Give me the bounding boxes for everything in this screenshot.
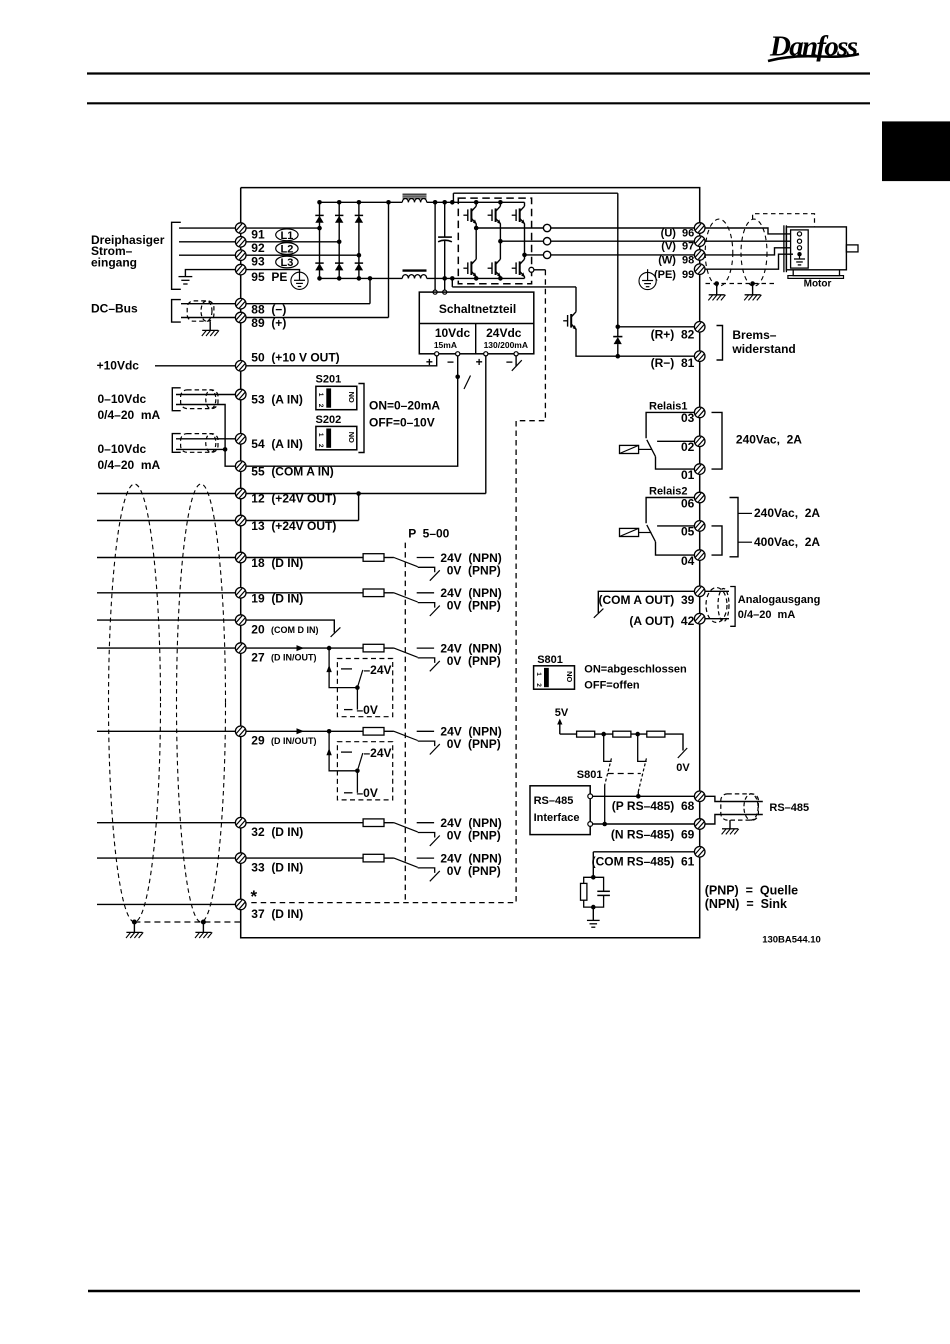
- wire DC minus to SMPS: [444, 278, 446, 290]
- junction 88 minus rail: [368, 276, 373, 281]
- terminal 32: [235, 817, 246, 828]
- svg-text:01: 01: [681, 468, 695, 482]
- option blade 27: [357, 670, 362, 688]
- wire 18: [97, 557, 363, 559]
- wire 89: [181, 317, 389, 319]
- IGBT Q3 upper: [512, 202, 525, 255]
- svg-text:50 (+10 V OUT): 50 (+10 V OUT): [251, 351, 339, 365]
- junction shield 2: [201, 920, 206, 925]
- svg-text:93: 93: [251, 255, 265, 269]
- svg-text:06: 06: [681, 496, 695, 510]
- terminal 99: [694, 264, 705, 275]
- option stub -24V 27: [341, 668, 352, 670]
- junction switch2 68: [636, 794, 641, 799]
- motor body: [786, 227, 846, 270]
- junction shield drains: [223, 447, 228, 452]
- phase U wire: [476, 227, 543, 229]
- svg-text:ON: ON: [565, 671, 574, 682]
- RC resistor branch 2: [584, 900, 594, 907]
- svg-text:27: 27: [251, 650, 265, 664]
- stub 24V 19: [417, 592, 434, 594]
- junction top bus Q2: [498, 200, 503, 205]
- switch blade 29: [394, 731, 418, 740]
- junction bottom bus Q5: [498, 276, 503, 281]
- junction 12-13: [356, 491, 361, 496]
- bracket S20x: [358, 384, 364, 453]
- junction 29 option: [327, 729, 332, 734]
- DIP switch S202: [316, 414, 357, 450]
- brake control tap circle: [529, 267, 534, 272]
- wire 32: [97, 822, 363, 824]
- terminal 93: [235, 250, 246, 261]
- slash 20 common: [331, 627, 341, 637]
- stub 0V 29: [418, 741, 435, 746]
- capacitor C61: [597, 891, 610, 895]
- svg-text:(W) 98: (W) 98: [658, 254, 694, 266]
- inverter module dashed box: [458, 198, 531, 284]
- motor terminal PE dot: [797, 252, 801, 256]
- svg-text:L3: L3: [280, 257, 293, 269]
- option dashed box 29: [337, 742, 392, 800]
- terminal 81: [694, 351, 705, 362]
- stub 24V 32: [417, 822, 434, 824]
- DIP switch S201: [316, 373, 357, 409]
- phase W wire: [525, 254, 544, 256]
- svg-text:(D IN/OUT): (D IN/OUT): [271, 653, 317, 663]
- SMPS input circle plus: [433, 290, 437, 294]
- stub motor ground 2: [752, 284, 754, 295]
- terminal 33: [235, 853, 246, 864]
- motor earth ground: [794, 259, 805, 265]
- wire 33: [97, 857, 363, 859]
- DC plus wrap wire: [453, 192, 617, 194]
- label 27: [251, 650, 316, 664]
- SMPS out 10V+ circle: [435, 352, 439, 356]
- 5V arrow: [557, 719, 562, 735]
- terminal 91: [235, 223, 246, 234]
- option down wire 27: [356, 688, 358, 710]
- slash 39 com: [594, 609, 604, 618]
- motor terminal W: [797, 246, 801, 250]
- svg-text:130/200mA: 130/200mA: [484, 340, 528, 350]
- S801 linkage dashed: [608, 773, 641, 775]
- junction plus jog: [450, 200, 455, 205]
- terminal 20: [235, 615, 246, 626]
- junction option common 29: [355, 769, 360, 774]
- terminal 97: [694, 236, 705, 247]
- resistor R32: [363, 819, 384, 827]
- svg-text:–24V: –24V: [364, 746, 392, 760]
- svg-text:−: −: [506, 355, 513, 369]
- brake IGBT Q7: [563, 287, 576, 330]
- terminal 50: [235, 361, 246, 372]
- svg-text:53 (A IN): 53 (A IN): [251, 393, 303, 407]
- phase V wire: [500, 240, 543, 242]
- ellipse L1: [276, 229, 298, 242]
- tick 400Vac: [738, 541, 752, 543]
- svg-text:S801: S801: [537, 654, 563, 666]
- brake diode D7: [613, 337, 622, 357]
- tick 240Vac: [738, 512, 752, 514]
- diode D2 upper: [335, 215, 343, 222]
- terminal 01: [694, 464, 705, 475]
- svg-text:0/4–20 mA: 0/4–20 mA: [738, 609, 796, 621]
- diode D5 lower: [335, 263, 343, 270]
- option stub -0V 29: [344, 792, 353, 794]
- stub 24V 18: [417, 557, 434, 559]
- svg-text:S201: S201: [316, 373, 342, 385]
- footer rule: [88, 1290, 860, 1293]
- junction RC bottom: [591, 905, 596, 910]
- junction switch1 69: [602, 822, 607, 827]
- svg-text:0V (PNP): 0V (PNP): [447, 563, 501, 577]
- motor flange: [784, 225, 787, 272]
- svg-text:0V (PNP): 0V (PNP): [447, 829, 501, 843]
- svg-text:0/4–20 mA: 0/4–20 mA: [98, 408, 161, 422]
- phase W wire to 98: [551, 254, 695, 256]
- shield drain dashed wire: [134, 921, 240, 923]
- option down wire 29: [356, 771, 358, 793]
- ellipse L2: [276, 243, 298, 256]
- svg-text:12 (+24V OUT): 12 (+24V OUT): [251, 492, 336, 506]
- stub 24V 27: [417, 647, 434, 649]
- junction motor shield 1: [714, 281, 719, 286]
- motor base: [788, 270, 844, 279]
- wire V to motor: [705, 240, 791, 242]
- analog out bracket: [730, 587, 735, 627]
- junction L3 phase: [357, 253, 362, 258]
- wire 29: [97, 730, 363, 732]
- junction R-: [616, 354, 621, 359]
- stub motor ground 1: [716, 284, 718, 295]
- svg-text:32 (D IN): 32 (D IN): [251, 825, 303, 839]
- wire 88: [181, 303, 370, 305]
- stub 0V 32: [418, 833, 435, 838]
- motor terminal U: [797, 232, 801, 236]
- RS-485 interface box: [530, 786, 590, 835]
- header rule 2: [87, 102, 870, 104]
- wire 12 to 13 link: [358, 494, 360, 521]
- wire 88 to minus rail: [369, 278, 371, 303]
- wire R+ from DC plus: [617, 193, 619, 336]
- junction shield 1: [132, 920, 137, 925]
- resistor R18: [363, 554, 384, 562]
- svg-text:03: 03: [681, 411, 695, 425]
- DC bus cable shield: [187, 301, 214, 321]
- wire 37: [97, 903, 241, 905]
- svg-text:ON=0–20mA: ON=0–20mA: [369, 399, 440, 413]
- junction bottom bus Q6: [0, 0, 1, 1]
- wire 10V- common: [241, 356, 458, 466]
- DC bus bracket: [172, 300, 181, 323]
- wire 20: [97, 620, 334, 632]
- svg-text:240Vac, 2A: 240Vac, 2A: [736, 432, 802, 446]
- wire 42 right: [705, 618, 729, 620]
- resistor R33: [363, 854, 384, 862]
- relay1 NC wire 02: [657, 440, 694, 442]
- svg-text:(R−) 81: (R−) 81: [651, 356, 695, 370]
- wire 69: [593, 823, 695, 825]
- slash 0V rail: [678, 748, 687, 758]
- terminal 06: [694, 492, 705, 503]
- relay1 bracket: [712, 412, 723, 469]
- slash 0V 18: [430, 570, 440, 580]
- arrow up option 27: [326, 665, 331, 672]
- slash 0V 29: [430, 744, 440, 754]
- svg-text:+10Vdc: +10Vdc: [97, 358, 140, 372]
- RS485 P circle: [588, 794, 593, 799]
- svg-text:33 (D IN): 33 (D IN): [251, 861, 303, 875]
- svg-text:(V) 97: (V) 97: [661, 241, 694, 253]
- relay1 coil: [620, 445, 652, 453]
- relay1 NO wire 03: [646, 412, 694, 438]
- ellipse L3: [276, 256, 298, 269]
- switch slash 24V-: [512, 360, 522, 371]
- phase V wire to 97: [551, 240, 695, 242]
- option stub -0V 27: [344, 709, 353, 711]
- rectifier leg L1: [319, 202, 321, 278]
- terminal 27: [235, 643, 246, 654]
- svg-text:(PNP) = Quelle: (PNP) = Quelle: [705, 883, 798, 897]
- DC bus shield drain: [209, 321, 211, 330]
- wire 69 right: [705, 815, 763, 825]
- svg-text:+: +: [476, 355, 483, 369]
- chassis ground RS485: [722, 829, 739, 835]
- RS485 cable shield: [721, 794, 759, 820]
- junction top leg L1: [317, 200, 322, 205]
- RC resistor branch: [584, 877, 594, 883]
- stub 24V-: [515, 356, 517, 366]
- svg-text:0V (PNP): 0V (PNP): [447, 864, 501, 878]
- wire L2 to 92: [179, 241, 339, 243]
- svg-text:(COM RS–485) 61: (COM RS–485) 61: [592, 855, 695, 869]
- junction 27 option: [327, 646, 332, 651]
- SMPS out 24V- circle: [514, 352, 518, 356]
- motor cable shield ellipse 1: [705, 219, 733, 286]
- resistor R61: [581, 883, 587, 900]
- svg-text:88 (−): 88 (−): [251, 302, 286, 316]
- svg-text:0V (PNP): 0V (PNP): [447, 599, 501, 613]
- option drop wire 27: [329, 648, 357, 688]
- svg-text:Schaltnetzteil: Schaltnetzteil: [439, 302, 516, 316]
- svg-text:37 (D IN): 37 (D IN): [251, 907, 303, 921]
- svg-text:(U) 96: (U) 96: [661, 227, 695, 239]
- label 29: [251, 734, 316, 748]
- svg-text:Brems–: Brems–: [732, 328, 776, 342]
- terminal 53: [235, 389, 246, 400]
- terminal 82: [694, 322, 705, 333]
- arrow out 27: [297, 645, 305, 651]
- 5V rail 2: [595, 733, 613, 735]
- junction bottom leg L1: [317, 276, 322, 281]
- diode D1 upper: [315, 215, 323, 222]
- junction R+: [616, 325, 621, 330]
- svg-text:400Vac, 2A: 400Vac, 2A: [754, 535, 820, 549]
- svg-text:–0V: –0V: [357, 786, 378, 800]
- S801 switch 2: [638, 734, 647, 796]
- terminal 39: [694, 586, 705, 597]
- svg-text:0/4–20 mA: 0/4–20 mA: [98, 458, 161, 472]
- svg-text:Interface: Interface: [534, 812, 580, 824]
- resistor R3 5V: [647, 731, 665, 737]
- terminal 02: [694, 436, 705, 447]
- RC cap branch: [593, 877, 603, 891]
- wire 18 after resistor: [384, 557, 394, 559]
- svg-text:2: 2: [317, 444, 324, 448]
- svg-text:−: −: [447, 355, 454, 369]
- terminal 12: [235, 488, 246, 499]
- svg-text:24Vdc: 24Vdc: [486, 326, 522, 340]
- svg-text:P 5–00: P 5–00: [408, 527, 449, 541]
- resistor R1 5V: [577, 731, 595, 737]
- wire 53 shield drain: [176, 405, 225, 450]
- rectifier minus bus: [320, 277, 403, 279]
- junction top leg L3: [357, 200, 362, 205]
- svg-text:(A OUT) 42: (A OUT) 42: [629, 614, 694, 628]
- svg-text:29: 29: [251, 734, 265, 748]
- svg-text:–0V: –0V: [357, 703, 378, 717]
- svg-text:0–10Vdc: 0–10Vdc: [98, 442, 147, 456]
- svg-text:L1: L1: [280, 230, 293, 242]
- Schaltnetzteil box: [419, 292, 534, 354]
- motor earth stub: [799, 254, 801, 258]
- resistor R29: [363, 728, 384, 736]
- wire 54 shield drain: [176, 448, 225, 450]
- option stub -24V 29: [341, 751, 352, 753]
- SMPS out 24V+ circle: [484, 352, 488, 356]
- terminal 61: [694, 847, 705, 858]
- svg-text:(NPN) = Sink: (NPN) = Sink: [705, 897, 787, 911]
- terminal 42: [694, 613, 705, 624]
- junction top bus Q1: [474, 200, 479, 205]
- wire 19: [97, 592, 363, 594]
- stub 24V 29: [417, 730, 434, 732]
- PE circle symbol at 99: [639, 269, 656, 289]
- svg-text:15mA: 15mA: [434, 340, 457, 350]
- svg-text:2: 2: [535, 683, 542, 687]
- stub 0V 18: [418, 567, 435, 572]
- 5V rail 3: [631, 733, 647, 735]
- wire 53: [176, 394, 241, 396]
- svg-text:20: 20: [251, 623, 265, 637]
- arrow up option 29: [326, 748, 331, 755]
- terminal 05: [694, 521, 705, 532]
- svg-text:+: +: [426, 355, 433, 369]
- svg-text:19 (D IN): 19 (D IN): [251, 591, 303, 605]
- svg-text:02: 02: [681, 440, 695, 454]
- wire 68 right: [705, 796, 763, 801]
- svg-text:ON: ON: [347, 392, 356, 403]
- IGBT Q6 lower: [512, 255, 525, 279]
- option blade 29: [357, 753, 362, 771]
- svg-text:OFF=offen: OFF=offen: [584, 679, 640, 691]
- terminal 04: [694, 550, 705, 561]
- control cable shield ellipse 1: [109, 484, 161, 922]
- Danfoss logo: [768, 31, 859, 63]
- control board dashed boundary: [251, 270, 545, 903]
- chapter tab: [882, 121, 950, 181]
- svg-text:0V: 0V: [676, 762, 690, 774]
- label Dreiphasiger Strom-eingang: [91, 233, 165, 270]
- relay2 NO wire 06: [646, 498, 694, 524]
- option dashed box 27: [337, 659, 392, 717]
- IGBT Q4 lower: [463, 228, 476, 278]
- wire W to motor: [705, 248, 791, 255]
- junction top leg L2: [337, 200, 342, 205]
- terminal 68: [694, 791, 705, 802]
- svg-text:92: 92: [251, 241, 265, 255]
- control cable shield ellipse 2: [177, 484, 226, 922]
- switch blade 27: [394, 648, 418, 657]
- switch blade 32: [394, 823, 418, 832]
- svg-text:130BA544.10: 130BA544.10: [762, 934, 821, 945]
- svg-text:OFF=0–10V: OFF=0–10V: [369, 416, 435, 430]
- stub ground 2: [202, 922, 204, 932]
- IGBT Q5 lower: [488, 241, 501, 278]
- motor cable shield ellipse 2: [741, 219, 767, 286]
- chassis ground DC bus shield: [202, 330, 219, 336]
- relay2 inner bracket: [712, 526, 723, 555]
- header rule 1: [87, 72, 870, 74]
- DC choke upper: [402, 194, 426, 202]
- wire 39 right: [705, 590, 729, 592]
- diode D3 upper: [355, 215, 363, 222]
- DC minus wrap wire: [452, 286, 576, 288]
- wire 61: [593, 851, 695, 853]
- option drop wire 29: [329, 731, 357, 771]
- svg-text:18 (D IN): 18 (D IN): [251, 556, 303, 570]
- diode D6 lower: [355, 263, 363, 270]
- wire 24V+ down: [485, 356, 487, 494]
- junction L1 phase: [317, 226, 322, 231]
- bracket 54: [172, 434, 180, 453]
- terminal 92: [235, 237, 246, 248]
- 5V rail 4: [665, 734, 683, 750]
- svg-text:RS–485: RS–485: [769, 802, 809, 814]
- RC cap branch 2: [593, 895, 603, 907]
- terminal 55: [235, 461, 246, 472]
- drive enclosure box: [241, 188, 700, 938]
- svg-text:0V (PNP): 0V (PNP): [447, 654, 501, 668]
- junction pullup 2: [635, 732, 640, 737]
- junction top bus Q3: [0, 0, 1, 1]
- terminal 96: [694, 223, 705, 234]
- wire 32 after resistor: [384, 822, 394, 824]
- resistor R2 5V: [613, 731, 631, 737]
- junction phase tap 1: [474, 226, 479, 231]
- wire to terminal 82: [618, 326, 695, 328]
- wire 54: [176, 438, 241, 440]
- stub 0V 27: [418, 658, 435, 663]
- brake control wire: [534, 269, 546, 271]
- terminal 98: [694, 250, 705, 261]
- svg-text:(R+) 82: (R+) 82: [651, 328, 695, 342]
- motor terminal box: [791, 230, 809, 268]
- stub 0V 33: [418, 868, 435, 873]
- terminal 13: [235, 515, 246, 526]
- svg-text:13 (+24V OUT): 13 (+24V OUT): [251, 519, 336, 533]
- terminal 54: [235, 434, 246, 445]
- svg-text:10Vdc: 10Vdc: [435, 326, 471, 340]
- S801 switch 1: [604, 734, 612, 824]
- terminal 69: [694, 819, 705, 830]
- wire U to motor: [705, 228, 791, 234]
- earth ground 61: [587, 920, 600, 927]
- switch slash 10V-: [464, 376, 471, 390]
- terminal 37: [235, 899, 246, 910]
- svg-text:(COM A OUT) 39: (COM A OUT) 39: [599, 593, 695, 607]
- junction 10V- tap: [455, 375, 460, 380]
